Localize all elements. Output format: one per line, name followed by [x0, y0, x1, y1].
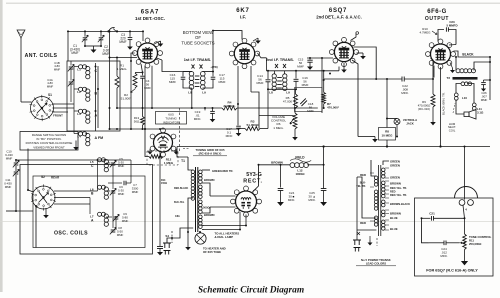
- wire 6F6 cathode down: [440, 67, 442, 147]
- transformer T-IF1 windings: [189, 72, 194, 77]
- wiper R6: [290, 118, 294, 124]
- wire jack to bus: [396, 125, 398, 137]
- trimmer C9: [106, 216, 112, 218]
- svg-text:C: C: [95, 69, 98, 73]
- range switch S2: [32, 186, 55, 209]
- capacitor C15 grid: [309, 58, 311, 60]
- ground below R6: [294, 129, 296, 133]
- svg-text:MFD.: MFD.: [308, 198, 315, 202]
- resistor R5: [295, 89, 297, 94]
- svg-text:BROWN-BLACK: BROWN-BLACK: [390, 202, 410, 206]
- svg-text:ANT. COILS: ANT. COILS: [25, 53, 58, 59]
- fold line artifact: [0, 221, 500, 223]
- capacitor C16: [295, 71, 297, 79]
- ac switch S4: [171, 231, 173, 243]
- grid line to 6SQ7: [307, 57, 333, 59]
- wire 6K7 cathode down: [250, 66, 252, 92]
- capacitor C21: [431, 216, 433, 221]
- svg-text:RED: RED: [390, 190, 396, 194]
- tube socket 6SQ7: [334, 42, 353, 61]
- osc coils inner box: [33, 176, 145, 248]
- svg-text:TUBE SOCKETS: TUBE SOCKETS: [181, 40, 214, 45]
- svg-text:B: B: [91, 192, 94, 196]
- trimmer C11: [15, 166, 17, 171]
- svg-text:INDICATOR: INDICATOR: [163, 120, 180, 124]
- svg-text:S2: S2: [41, 175, 45, 179]
- wire to speaker: [456, 100, 464, 115]
- potentiometer R2: [133, 73, 137, 88]
- dashes below chart: [376, 238, 378, 246]
- svg-text:OF 6X5 TUBE: OF 6X5 TUBE: [203, 250, 221, 254]
- svg-text:MMF: MMF: [218, 80, 225, 84]
- junction dots: [67, 30, 69, 32]
- svg-text:BLACK: BLACK: [462, 53, 474, 57]
- svg-text:1800Ω: 1800Ω: [295, 172, 305, 176]
- capacitor C18: [300, 99, 307, 107]
- resistor R9: [432, 79, 434, 94]
- svg-text:RED: RED: [360, 173, 366, 177]
- wire 5Y3 cathode to B plus: [253, 165, 259, 192]
- svg-text:BLK-YEL: BLK-YEL: [174, 201, 185, 204]
- svg-text:3.1Ω: 3.1Ω: [477, 110, 484, 114]
- capacitor C26 filter: [321, 188, 327, 190]
- svg-text:& DIAL LAMP: & DIAL LAMP: [215, 235, 234, 239]
- ground 6SQ7 lower: [370, 136, 375, 138]
- capacitor C27: [483, 80, 485, 82]
- capacitor C19: [204, 108, 206, 110]
- svg-text:OUTPUT: OUTPUT: [425, 16, 449, 22]
- wire R7 top / AF line: [323, 71, 325, 80]
- svg-text:MMF: MMF: [307, 109, 314, 113]
- svg-text:250,000Ω: 250,000Ω: [469, 242, 482, 246]
- heater wires: [204, 225, 246, 227]
- svg-text:GREEN: GREEN: [390, 164, 400, 168]
- svg-text:1st I.F. TRANS.: 1st I.F. TRANS.: [184, 57, 211, 62]
- svg-text:150Ω: 150Ω: [161, 182, 167, 185]
- T-IF1 core: [195, 75, 200, 77]
- svg-text:MMF: MMF: [54, 67, 61, 71]
- svg-text:2nd I.F. TRANS.: 2nd I.F. TRANS.: [266, 58, 294, 62]
- wire chart top green: [383, 161, 389, 165]
- capacitor C16: [182, 72, 184, 77]
- svg-text:Schematic Circuit Diagram: Schematic Circuit Diagram: [198, 286, 304, 296]
- voice coil L11: [472, 103, 476, 107]
- wire 6K7 plate to IF2: [258, 53, 267, 58]
- T1 secondary windings: [199, 170, 203, 174]
- svg-text:BLUE: BLUE: [390, 227, 398, 231]
- wire 6SA7 left pin: [131, 53, 135, 61]
- voice coil circuit: [456, 84, 461, 94]
- wire AVC bus right: [237, 107, 318, 109]
- svg-text:FOR 6SQ7 (R.C 616-A) ONLY: FOR 6SQ7 (R.C 616-A) ONLY: [426, 269, 478, 273]
- trimmer C5: [106, 162, 110, 164]
- wire T2 primary left: [455, 57, 457, 71]
- power transformer chart core: [378, 165, 380, 236]
- trimmer C1: [84, 31, 86, 36]
- svg-text:470,000*: 470,000*: [327, 106, 340, 110]
- wire tone feed: [464, 147, 466, 200]
- svg-text:4: 4: [465, 208, 467, 212]
- wire cathode line down: [159, 244, 161, 246]
- svg-text:VIEWED FROM FRONT: VIEWED FROM FRONT: [33, 145, 65, 149]
- chart right winding: [382, 168, 386, 172]
- svg-text:6SA7: 6SA7: [141, 10, 160, 16]
- svg-text:MMF: MMF: [6, 156, 13, 160]
- svg-text:MMF: MMF: [5, 185, 12, 189]
- svg-text:6SQ7: 6SQ7: [329, 8, 347, 14]
- svg-text:MFD.: MFD.: [194, 117, 202, 121]
- T1 primary winding: [191, 170, 195, 174]
- wire avc vertical: [109, 31, 111, 129]
- wire 6U5 target line down: [159, 157, 161, 245]
- tone box socket arc: [455, 187, 478, 199]
- wire grid drop to 6SA7: [142, 31, 144, 41]
- ground below L4: [75, 143, 77, 147]
- svg-text:GREEN: GREEN: [390, 160, 400, 164]
- svg-text:L2: L2: [77, 90, 81, 94]
- svg-text:47,000: 47,000: [283, 100, 293, 104]
- svg-text:BROWN: BROWN: [390, 182, 401, 186]
- svg-text:MMF: MMF: [481, 98, 488, 102]
- wire osc top: [16, 159, 97, 161]
- svg-text:BLUE: BLUE: [390, 216, 398, 220]
- capacitor C17: [212, 72, 214, 77]
- wire antenna lead: [20, 38, 22, 102]
- capacitor C25 filter: [280, 165, 282, 188]
- wire 6F6 plate black: [454, 51, 491, 57]
- capacitor C4: [141, 64, 143, 72]
- svg-text:MMF: MMF: [122, 219, 129, 223]
- wire T2 right B plus: [489, 57, 491, 100]
- page border artifact left: [0, 0, 3, 292]
- trimmer C8: [111, 229, 116, 231]
- coil L7 osc A: [98, 212, 102, 216]
- speaker: [464, 112, 469, 117]
- wire osc col right: [112, 165, 114, 189]
- wire grid cap drop to IF1 secondary: [212, 31, 214, 72]
- ac plug: [163, 243, 171, 255]
- svg-text:LEAD COLORS: LEAD COLORS: [366, 262, 386, 266]
- svg-text:MMF: MMF: [132, 190, 139, 194]
- coil L6 osc B: [98, 185, 102, 189]
- svg-text:MMF: MMF: [302, 83, 309, 87]
- resistor R3: [245, 127, 260, 131]
- ground below R9: [432, 107, 434, 119]
- svg-text:MFD.: MFD.: [288, 198, 295, 202]
- tube socket 6F6: [431, 44, 451, 64]
- svg-text:S1: S1: [48, 93, 52, 97]
- wire 6SA7 plate: [157, 58, 163, 60]
- label 6U5 tuning indicator box: [156, 112, 187, 125]
- svg-text:MMF: MMF: [297, 65, 304, 69]
- svg-text:MMF: MMF: [144, 86, 151, 90]
- svg-text:2.4MEG.: 2.4MEG.: [223, 104, 235, 108]
- antenna: [17, 30, 25, 38]
- wire 5Y3 plates to T1: [210, 195, 236, 197]
- wire left pin down: [130, 61, 132, 129]
- trimmer C1A: [69, 66, 74, 68]
- wire trimmer chain: [70, 61, 72, 66]
- wiper arrow R2: [131, 89, 136, 93]
- wire antenna to range switch S1: [21, 101, 32, 103]
- wire 6SA7 pin5 down: [151, 66, 153, 108]
- capacitor C22: [401, 77, 403, 82]
- volume control R6: [294, 108, 296, 113]
- dash link tuning: [179, 108, 181, 152]
- wire 6SA7 pin4 down: [144, 66, 146, 129]
- coil L1 ant C band: [79, 65, 83, 69]
- range switch note box: [20, 132, 78, 151]
- svg-text:5 MMFD: 5 MMFD: [446, 24, 457, 28]
- victrola jack: [394, 119, 400, 125]
- svg-text:L10: L10: [462, 96, 467, 100]
- chart leads right: [385, 167, 389, 169]
- wire rect to field: [259, 164, 291, 166]
- diode load box: [295, 88, 323, 112]
- wire bus left drop: [177, 147, 188, 158]
- ground below C3: [129, 44, 131, 47]
- ground 6SA7 top right: [160, 41, 162, 44]
- wire bus riser: [323, 147, 325, 189]
- coil L2 ant B band: [79, 87, 83, 91]
- svg-text:RED: RED: [360, 221, 366, 225]
- svg-text:MMF: MMF: [117, 233, 124, 237]
- resistor R12: [159, 152, 161, 157]
- svg-text:MMF: MMF: [71, 51, 78, 55]
- svg-text:BROWN: BROWN: [204, 213, 215, 217]
- wire diode return y115.5: [259, 115, 294, 117]
- svg-text:MFD.: MFD.: [440, 254, 447, 258]
- capacitor C23 feedback: [438, 30, 444, 42]
- svg-text:MMF: MMF: [169, 80, 176, 84]
- svg-text:BROWN: BROWN: [204, 178, 215, 182]
- ground R11: [464, 250, 466, 257]
- svg-text:51,000Ω: 51,000Ω: [247, 123, 259, 127]
- wire R8 connections: [386, 79, 388, 119]
- wire S2 drop: [35, 206, 37, 248]
- tube socket 6K7: [234, 43, 254, 63]
- tube socket 6U5: [154, 133, 173, 152]
- svg-text:T2: T2: [446, 76, 450, 80]
- capacitor C14: [267, 71, 269, 79]
- chart leads left: [370, 172, 374, 174]
- wire plate supply bus: [177, 146, 490, 148]
- svg-text:A FM: A FM: [95, 136, 104, 140]
- wire top bus y31: [68, 30, 143, 32]
- trimmer C2: [100, 31, 102, 36]
- svg-text:RED-YEL. TR.: RED-YEL. TR.: [390, 186, 407, 190]
- wire 6K7 pin down2: [237, 66, 239, 104]
- svg-text:2nd DET., A.F. & A.V.C.: 2nd DET., A.F. & A.V.C.: [316, 15, 362, 20]
- trimmer C10: [15, 160, 17, 162]
- svg-text:C21: C21: [429, 212, 435, 216]
- T2 core bar: [453, 77, 478, 80]
- transformer T1 core: [195, 167, 197, 232]
- svg-text:OSC. COILS: OSC. COILS: [54, 231, 88, 237]
- fuse chart: [357, 232, 360, 235]
- ground 6SQ7 bottom: [343, 63, 345, 67]
- svg-text:56Ω: 56Ω: [134, 119, 140, 123]
- wire 6SQ7 plate right: [354, 47, 377, 79]
- wire AVC bus: [117, 107, 222, 109]
- svg-text:1 MEG.: 1 MEG.: [273, 126, 284, 130]
- wire 6K7 grid top: [213, 31, 242, 40]
- capacitor C13: [237, 104, 239, 125]
- svg-text:MMF: MMF: [119, 40, 126, 44]
- wire T2 primary right: [474, 62, 490, 71]
- svg-text:MFD.: MFD.: [401, 91, 409, 95]
- svg-text:YEL TR.: YEL TR.: [356, 184, 366, 188]
- svg-text:B: B: [95, 92, 98, 96]
- svg-text:REAR: REAR: [51, 176, 60, 180]
- svg-text:GREEN-RED TR.: GREEN-RED TR.: [212, 169, 233, 173]
- wire R1 to avc bus: [116, 88, 118, 108]
- resistor R1: [116, 58, 118, 77]
- svg-text:RED-BLACK: RED-BLACK: [174, 187, 188, 190]
- resistor R13: [141, 117, 145, 126]
- svg-text:T1: T1: [181, 159, 185, 163]
- dial lamp: [195, 233, 206, 244]
- wire C22 to grid: [404, 78, 433, 80]
- wire IF1 primary bottom: [191, 88, 193, 108]
- svg-text:(RC-316): (RC-316): [418, 107, 430, 111]
- wire 6F6 pins down: [433, 66, 435, 78]
- switch blade S1a: [109, 28, 115, 32]
- svg-text:BLACK-BRN. TR.: BLACK-BRN. TR.: [442, 92, 446, 115]
- svg-text:MMF: MMF: [102, 52, 109, 56]
- wire tone internal top: [422, 217, 431, 219]
- svg-text:RED-YEL. TR.: RED-YEL. TR.: [390, 193, 407, 197]
- svg-text:COIL: COIL: [449, 128, 456, 132]
- wire volume riser: [321, 58, 323, 113]
- hum neut coil L10: [454, 93, 458, 97]
- svg-text:L3: L3: [77, 112, 81, 116]
- tube socket 5Y3: [236, 191, 257, 212]
- coil L5 osc C: [98, 158, 102, 162]
- wire IF1 tops: [162, 60, 192, 72]
- svg-text:10 MEG: 10 MEG: [381, 134, 393, 138]
- wire 6F6 screen: [449, 44, 456, 47]
- wire S2 to coils: [54, 190, 98, 192]
- wire 6U5 grounds: [149, 149, 151, 152]
- svg-text:4.7MEG: 4.7MEG: [419, 31, 431, 35]
- svg-text:FIELD: FIELD: [295, 156, 305, 160]
- svg-text:(RC-616-A ONLY): (RC-616-A ONLY): [199, 152, 222, 156]
- wire T1 primary bottom: [172, 228, 193, 238]
- svg-text:5Y3-G: 5Y3-G: [246, 172, 262, 178]
- svg-text:MMF: MMF: [47, 84, 54, 88]
- svg-text:C8A: C8A: [175, 215, 180, 218]
- ground below C19: [212, 116, 214, 119]
- svg-text:L1: L1: [77, 68, 81, 72]
- svg-text:+(TW): +(TW): [210, 65, 217, 69]
- coil L4 ant A FM: [79, 132, 83, 136]
- osc coils outer box: [20, 165, 153, 255]
- coil L3 ant A band: [79, 109, 83, 113]
- wire IF2 top line: [266, 70, 339, 72]
- svg-text:1 MEG.: 1 MEG.: [117, 67, 128, 71]
- svg-text:6K7: 6K7: [236, 8, 249, 14]
- svg-text:1st DET.-OSC.: 1st DET.-OSC.: [135, 16, 165, 21]
- svg-text:S4: S4: [165, 234, 169, 238]
- resistor R7: [322, 92, 326, 103]
- wire ant coil bus right: [95, 63, 97, 131]
- wire dial lamp: [200, 232, 202, 233]
- wire grid drop 6F6: [431, 58, 434, 79]
- svg-text:MFD: MFD: [226, 134, 233, 138]
- wire bottom left: [6, 210, 16, 212]
- T1 leads: [188, 157, 193, 170]
- ac plug chart: [353, 240, 361, 252]
- wire R12 left: [145, 129, 149, 157]
- ground T1: [187, 244, 189, 247]
- svg-text:BROWN: BROWN: [390, 212, 401, 216]
- svg-text:MMF: MMF: [256, 81, 263, 85]
- svg-text:I.F.: I.F.: [240, 15, 246, 20]
- page border artifact top: [6, 2, 500, 4]
- wire ant coil stubs left: [74, 66, 79, 68]
- wire C1 C2 join: [85, 45, 101, 47]
- svg-text:BROWN: BROWN: [271, 161, 283, 165]
- field coil L12: [290, 163, 295, 168]
- tone box pins: [459, 200, 465, 206]
- svg-text:A: A: [95, 114, 98, 118]
- wire field to bus riser: [307, 164, 323, 166]
- wiper R11: [459, 242, 463, 244]
- ground below C13: [238, 130, 240, 133]
- svg-text:GREEN: GREEN: [390, 176, 400, 180]
- ant coil box: [67, 61, 120, 131]
- tube socket 6SA7: [138, 43, 158, 63]
- grid cap hook 6SQ7: [351, 34, 357, 41]
- svg-text:FRONT: FRONT: [53, 114, 63, 118]
- wire S1 to coil bus: [53, 103, 75, 105]
- capacitor C7: [108, 182, 122, 184]
- resistor R8 box: [379, 128, 396, 141]
- tone pot R11: [464, 218, 466, 234]
- ground below C1 C2: [93, 46, 95, 50]
- wire S1-S2 gang: [27, 149, 29, 191]
- svg-text:500Ω: 500Ω: [203, 206, 210, 210]
- wire chart to plug: [371, 160, 376, 176]
- wire tone left leg: [422, 218, 429, 243]
- svg-text:1 MEG: 1 MEG: [164, 161, 174, 165]
- ground below S2: [45, 208, 47, 212]
- transformer T-IF2 windings: [274, 71, 276, 74]
- T2 secondary: [461, 82, 465, 86]
- range switch S1: [31, 97, 54, 120]
- svg-text:L8: L8: [269, 91, 273, 95]
- svg-text:A: A: [91, 219, 94, 223]
- trimmer C6: [106, 190, 110, 192]
- trimmer C4A: [69, 81, 74, 83]
- capacitor C24 tone: [443, 241, 445, 246]
- transformer T2 primary: [456, 69, 460, 73]
- svg-text:MMF: MMF: [118, 192, 125, 196]
- ground 6K7 top: [257, 38, 259, 41]
- T-IF2 core: [277, 77, 282, 79]
- svg-text:L9: L9: [286, 91, 290, 95]
- tone control box: [415, 198, 494, 276]
- svg-text:51,000*: 51,000*: [121, 97, 132, 101]
- wire C11 down: [15, 175, 17, 211]
- svg-text:RECT.: RECT.: [243, 179, 263, 185]
- wire main bus y129: [110, 128, 239, 130]
- wire af coupling: [324, 78, 402, 80]
- svg-text:6F6-G: 6F6-G: [427, 9, 447, 15]
- svg-text:L9: L9: [202, 91, 206, 95]
- dashed box R12: [147, 151, 178, 165]
